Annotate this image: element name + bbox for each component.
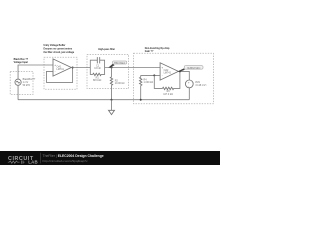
dashed group box: non-inverting op-amp bbox=[134, 53, 214, 103]
svg-text:http://circuitlab.com/c/9pq4ka: http://circuitlab.com/c/9pq4kap7v bbox=[43, 159, 89, 163]
svg-text:Ensures no current enters: Ensures no current enters bbox=[44, 48, 73, 51]
footer separator bbox=[40, 153, 42, 164]
dashed group box: black box source bbox=[10, 72, 33, 95]
svg-text:Voltage Input: Voltage Input bbox=[14, 61, 29, 64]
svg-text:Unity Voltage Buffer: Unity Voltage Buffer bbox=[44, 44, 66, 47]
resistor R2 (shunt to ground) bbox=[110, 68, 124, 100]
svg-text:88.9 kΩ: 88.9 kΩ bbox=[93, 79, 102, 82]
junction: R4 to ground rail bbox=[140, 99, 142, 101]
wire: filter output to amp + input bbox=[105, 67, 161, 69]
node flag: Filter Output bbox=[108, 61, 127, 68]
svg-text:TheFlier | ELEC2004 Design Cha: TheFlier | ELEC2004 Design Challenge bbox=[43, 154, 104, 158]
wire: buffer feedback loop output to inverting input bbox=[47, 68, 73, 83]
svg-text:High-pass filter: High-pass filter bbox=[98, 48, 115, 51]
wire: source top to buffer + input bbox=[18, 65, 53, 79]
svg-text:-: - bbox=[162, 74, 163, 78]
svg-text:-: - bbox=[188, 84, 189, 88]
junction: buffer output node bbox=[72, 67, 74, 69]
svg-text:LM741: LM741 bbox=[57, 68, 65, 71]
svg-text:50 kHz: 50 kHz bbox=[23, 84, 31, 87]
svg-text:LM741: LM741 bbox=[164, 72, 172, 75]
junction: inverting input node bbox=[153, 74, 155, 76]
svg-text:<0.48 mV>: <0.48 mV> bbox=[195, 84, 207, 87]
resistor R4 (to ground) bbox=[140, 75, 154, 99]
svg-text:the filter circuit, just volta: the filter circuit, just voltage bbox=[44, 51, 75, 54]
resistor R1 (bottom branch of filter loop) bbox=[90, 68, 104, 83]
capacitor C1 (top branch of filter loop) bbox=[90, 57, 104, 70]
svg-text:LAB: LAB bbox=[28, 160, 38, 165]
junction: R2 to ground rail bbox=[111, 99, 113, 101]
voltmeter VM1 bbox=[185, 80, 193, 88]
wire: source bottom to ground rail bbox=[17, 85, 19, 99]
footer bar bbox=[0, 151, 220, 165]
wire: voltmeter bottom to ground rail bbox=[188, 88, 190, 100]
value label: BlackBox?? 1 mV 50 kHz bbox=[23, 78, 36, 87]
svg-text:Op-AmpOutput: Op-AmpOutput bbox=[187, 66, 201, 69]
op-amp OA1 unity buffer bbox=[53, 59, 71, 76]
svg-text:Black Box ??: Black Box ?? bbox=[14, 59, 29, 61]
svg-text:Gain ??: Gain ?? bbox=[145, 51, 154, 53]
node flag: Op-AmpOutput bbox=[177, 66, 203, 72]
ground rail wire bbox=[18, 99, 189, 101]
svg-text:Filter Output: Filter Output bbox=[114, 61, 125, 64]
svg-text:0.8 nF: 0.8 nF bbox=[94, 67, 101, 70]
CircuitLab logo bbox=[8, 156, 38, 165]
svg-text:-: - bbox=[55, 70, 56, 74]
junction: filter output node bbox=[111, 67, 113, 69]
ground symbol bbox=[109, 100, 115, 115]
dashed group box: high-pass filter bbox=[87, 55, 129, 89]
dashed group box: unity buffer bbox=[44, 57, 77, 89]
voltage source V1 (BlackBox??) bbox=[15, 79, 21, 85]
op-amp OA2 non-inverting bbox=[160, 63, 178, 80]
wire: amp output to voltmeter bbox=[178, 71, 189, 80]
svg-text:107.0 kΩ: 107.0 kΩ bbox=[163, 93, 173, 96]
junction: amp output node bbox=[179, 70, 181, 72]
svg-text:Non-Inverting Op-Amp: Non-Inverting Op-Amp bbox=[145, 47, 170, 50]
svg-text:10.00 kΩ: 10.00 kΩ bbox=[115, 82, 125, 85]
svg-text:1.000 kΩ: 1.000 kΩ bbox=[144, 81, 154, 84]
wire: buffer output to filter bbox=[71, 67, 90, 69]
value label: VM1 <0.48 mV> bbox=[195, 81, 207, 87]
wire: inverting input to R4/R3 junction bbox=[141, 74, 160, 76]
resistor R3 (feedback) bbox=[154, 71, 180, 96]
